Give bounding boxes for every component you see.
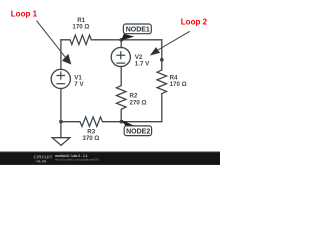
svg-text:170 Ω: 170 Ω xyxy=(72,24,89,31)
svg-text:Loop 1: Loop 1 xyxy=(11,9,38,18)
svg-text:http://circuitlab.com/c/gb9jbu: http://circuitlab.com/c/gb9jburw629f xyxy=(55,158,99,162)
svg-text:R2: R2 xyxy=(130,92,138,99)
svg-text:NODE1: NODE1 xyxy=(126,26,150,33)
svg-text:270 Ω: 270 Ω xyxy=(130,99,147,106)
svg-text:1.7 V: 1.7 V xyxy=(135,61,150,68)
svg-text:170 Ω: 170 Ω xyxy=(170,81,187,88)
svg-text:NODE2: NODE2 xyxy=(126,129,150,136)
svg-text:Loop 2: Loop 2 xyxy=(181,18,208,27)
svg-text:370 Ω: 370 Ω xyxy=(82,135,99,142)
svg-text:7 V: 7 V xyxy=(74,81,84,88)
svg-text:≈■LAB: ≈■LAB xyxy=(36,160,47,164)
